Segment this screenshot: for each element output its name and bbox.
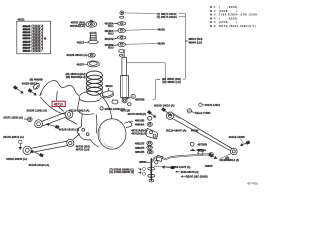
svg-text:48510 (RH): 48510 (RH) xyxy=(188,37,202,41)
svg-text:48806A: 48806A xyxy=(135,122,145,126)
svg-text:48730 (LH): 48730 (LH) xyxy=(76,148,90,152)
svg-text:48101: 48101 xyxy=(105,84,113,88)
svg-text:90128-08013: 90128-08013 xyxy=(22,81,38,85)
svg-text:FJ80,RJ80#: ATM 12/89: FJ80,RJ80#: ATM 12/89 xyxy=(219,13,258,17)
svg-text:48158B: 48158B xyxy=(105,43,114,47)
svg-text:90105-14010 (A): 90105-14010 (A) xyxy=(154,103,175,107)
svg-text:90179-09011(A): 90179-09011(A) xyxy=(128,112,147,116)
svg-text:(M) 48231B(LH): (M) 48231B(LH) xyxy=(66,75,86,79)
svg-text:48159: 48159 xyxy=(157,42,165,46)
svg-text:48170-14011: 48170-14011 xyxy=(205,103,221,107)
svg-text:(B) 48609B: (B) 48609B xyxy=(30,78,43,82)
svg-text:48740: 48740 xyxy=(191,129,199,133)
svg-text:48805: 48805 xyxy=(205,164,213,168)
svg-text:48817B: 48817B xyxy=(135,142,145,146)
svg-text:(9208- ): (9208- ) xyxy=(219,20,238,24)
svg-text:90119-08047 (A): 90119-08047 (A) xyxy=(166,129,186,133)
svg-text:( -9008): ( -9008) xyxy=(219,5,238,9)
svg-text:48131-68: 48131-68 xyxy=(23,50,31,52)
svg-text:90119-10813 (A): 90119-10813 (A) xyxy=(69,109,89,113)
svg-text:48530B: 48530B xyxy=(135,97,145,101)
svg-text:W-3: W-3 xyxy=(210,13,216,17)
svg-text:FIELD TURN: FIELD TURN xyxy=(195,111,211,115)
svg-text:48131-64: 48131-64 xyxy=(23,38,31,40)
svg-text:48157: 48157 xyxy=(77,63,85,67)
svg-text:48815B: 48815B xyxy=(135,118,145,122)
svg-text:48113: 48113 xyxy=(77,40,85,44)
svg-text:48131-66: 48131-66 xyxy=(23,44,31,46)
svg-text:9046-08078 (2): 9046-08078 (2) xyxy=(181,170,199,174)
svg-text:48131-60: 48131-60 xyxy=(23,26,31,28)
svg-text:W-2: W-2 xyxy=(210,9,216,13)
svg-text:NO.3: NO.3 xyxy=(108,47,114,49)
svg-text:90129-0901A (1): 90129-0901A (1) xyxy=(220,158,240,162)
svg-text:48540 (LH): 48540 (LH) xyxy=(188,41,202,45)
svg-text:( -9208): ( -9208) xyxy=(219,16,238,20)
svg-text:48725B: 48725B xyxy=(198,143,208,147)
svg-text:W-5: W-5 xyxy=(210,20,216,24)
svg-text:NO.2: NO.2 xyxy=(108,33,114,35)
svg-text:48158A: 48158A xyxy=(105,29,114,33)
svg-text:NOTE 48231-60B13(*1): NOTE 48231-60B13(*1) xyxy=(219,24,256,28)
svg-text:90105-14110 (A): 90105-14110 (A) xyxy=(59,128,79,132)
svg-text:48131: 48131 xyxy=(18,18,26,21)
svg-text:90119-14068: 90119-14068 xyxy=(229,135,245,139)
svg-text:(T) 48177-34021: (T) 48177-34021 xyxy=(157,15,178,19)
svg-text:W-1: W-1 xyxy=(210,5,216,9)
svg-text:(M) 48531 (LH): (M) 48531 (LH) xyxy=(162,80,181,84)
svg-text:48755A(LH): 48755A(LH) xyxy=(70,24,85,28)
svg-text:NO.1: NO.1 xyxy=(108,26,114,28)
svg-text:48815B: 48815B xyxy=(135,150,145,154)
svg-text:48807B: 48807B xyxy=(135,146,145,150)
svg-text:48131-65: 48131-65 xyxy=(23,41,31,43)
svg-text:48131-67: 48131-67 xyxy=(23,47,31,49)
svg-text:90105-12061 (A): 90105-12061 (A) xyxy=(27,109,48,113)
svg-text:48158: 48158 xyxy=(157,27,165,31)
svg-text:90179-16012 (A): 90179-16012 (A) xyxy=(3,135,24,139)
svg-text:48710: 48710 xyxy=(54,103,63,107)
svg-text:48157B: 48157B xyxy=(105,37,114,41)
svg-text:90171-12021 (A): 90171-12021 (A) xyxy=(4,116,23,120)
svg-text:48131-61: 48131-61 xyxy=(23,29,31,31)
svg-text:W-4: W-4 xyxy=(210,16,216,20)
svg-text:48806A: 48806A xyxy=(196,148,206,152)
svg-text:94815-16050 (A): 94815-16050 (A) xyxy=(6,157,27,161)
svg-text:48158A: 48158A xyxy=(105,22,114,26)
svg-text:48805: 48805 xyxy=(139,160,147,164)
svg-text:9084-11371 (1): 9084-11371 (1) xyxy=(172,165,191,169)
svg-text:48131-63: 48131-63 xyxy=(23,35,31,37)
svg-text:4F7 4710: 4F7 4710 xyxy=(247,182,258,185)
svg-text:90105-14110 (A): 90105-14110 (A) xyxy=(29,163,49,167)
svg-text:(9008- ): (9008- ) xyxy=(219,9,238,13)
svg-text:W-6: W-6 xyxy=(210,24,216,28)
svg-text:48131-62: 48131-62 xyxy=(23,32,31,34)
svg-text:REAR 28C (5018): REAR 28C (5018) xyxy=(186,175,208,179)
svg-text:48702A(LH): 48702A(LH) xyxy=(131,132,146,136)
svg-text:90128-08013 (A): 90128-08013 (A) xyxy=(67,53,88,57)
svg-text:(A) 97905-82848 (1): (A) 97905-82848 (1) xyxy=(109,170,134,174)
